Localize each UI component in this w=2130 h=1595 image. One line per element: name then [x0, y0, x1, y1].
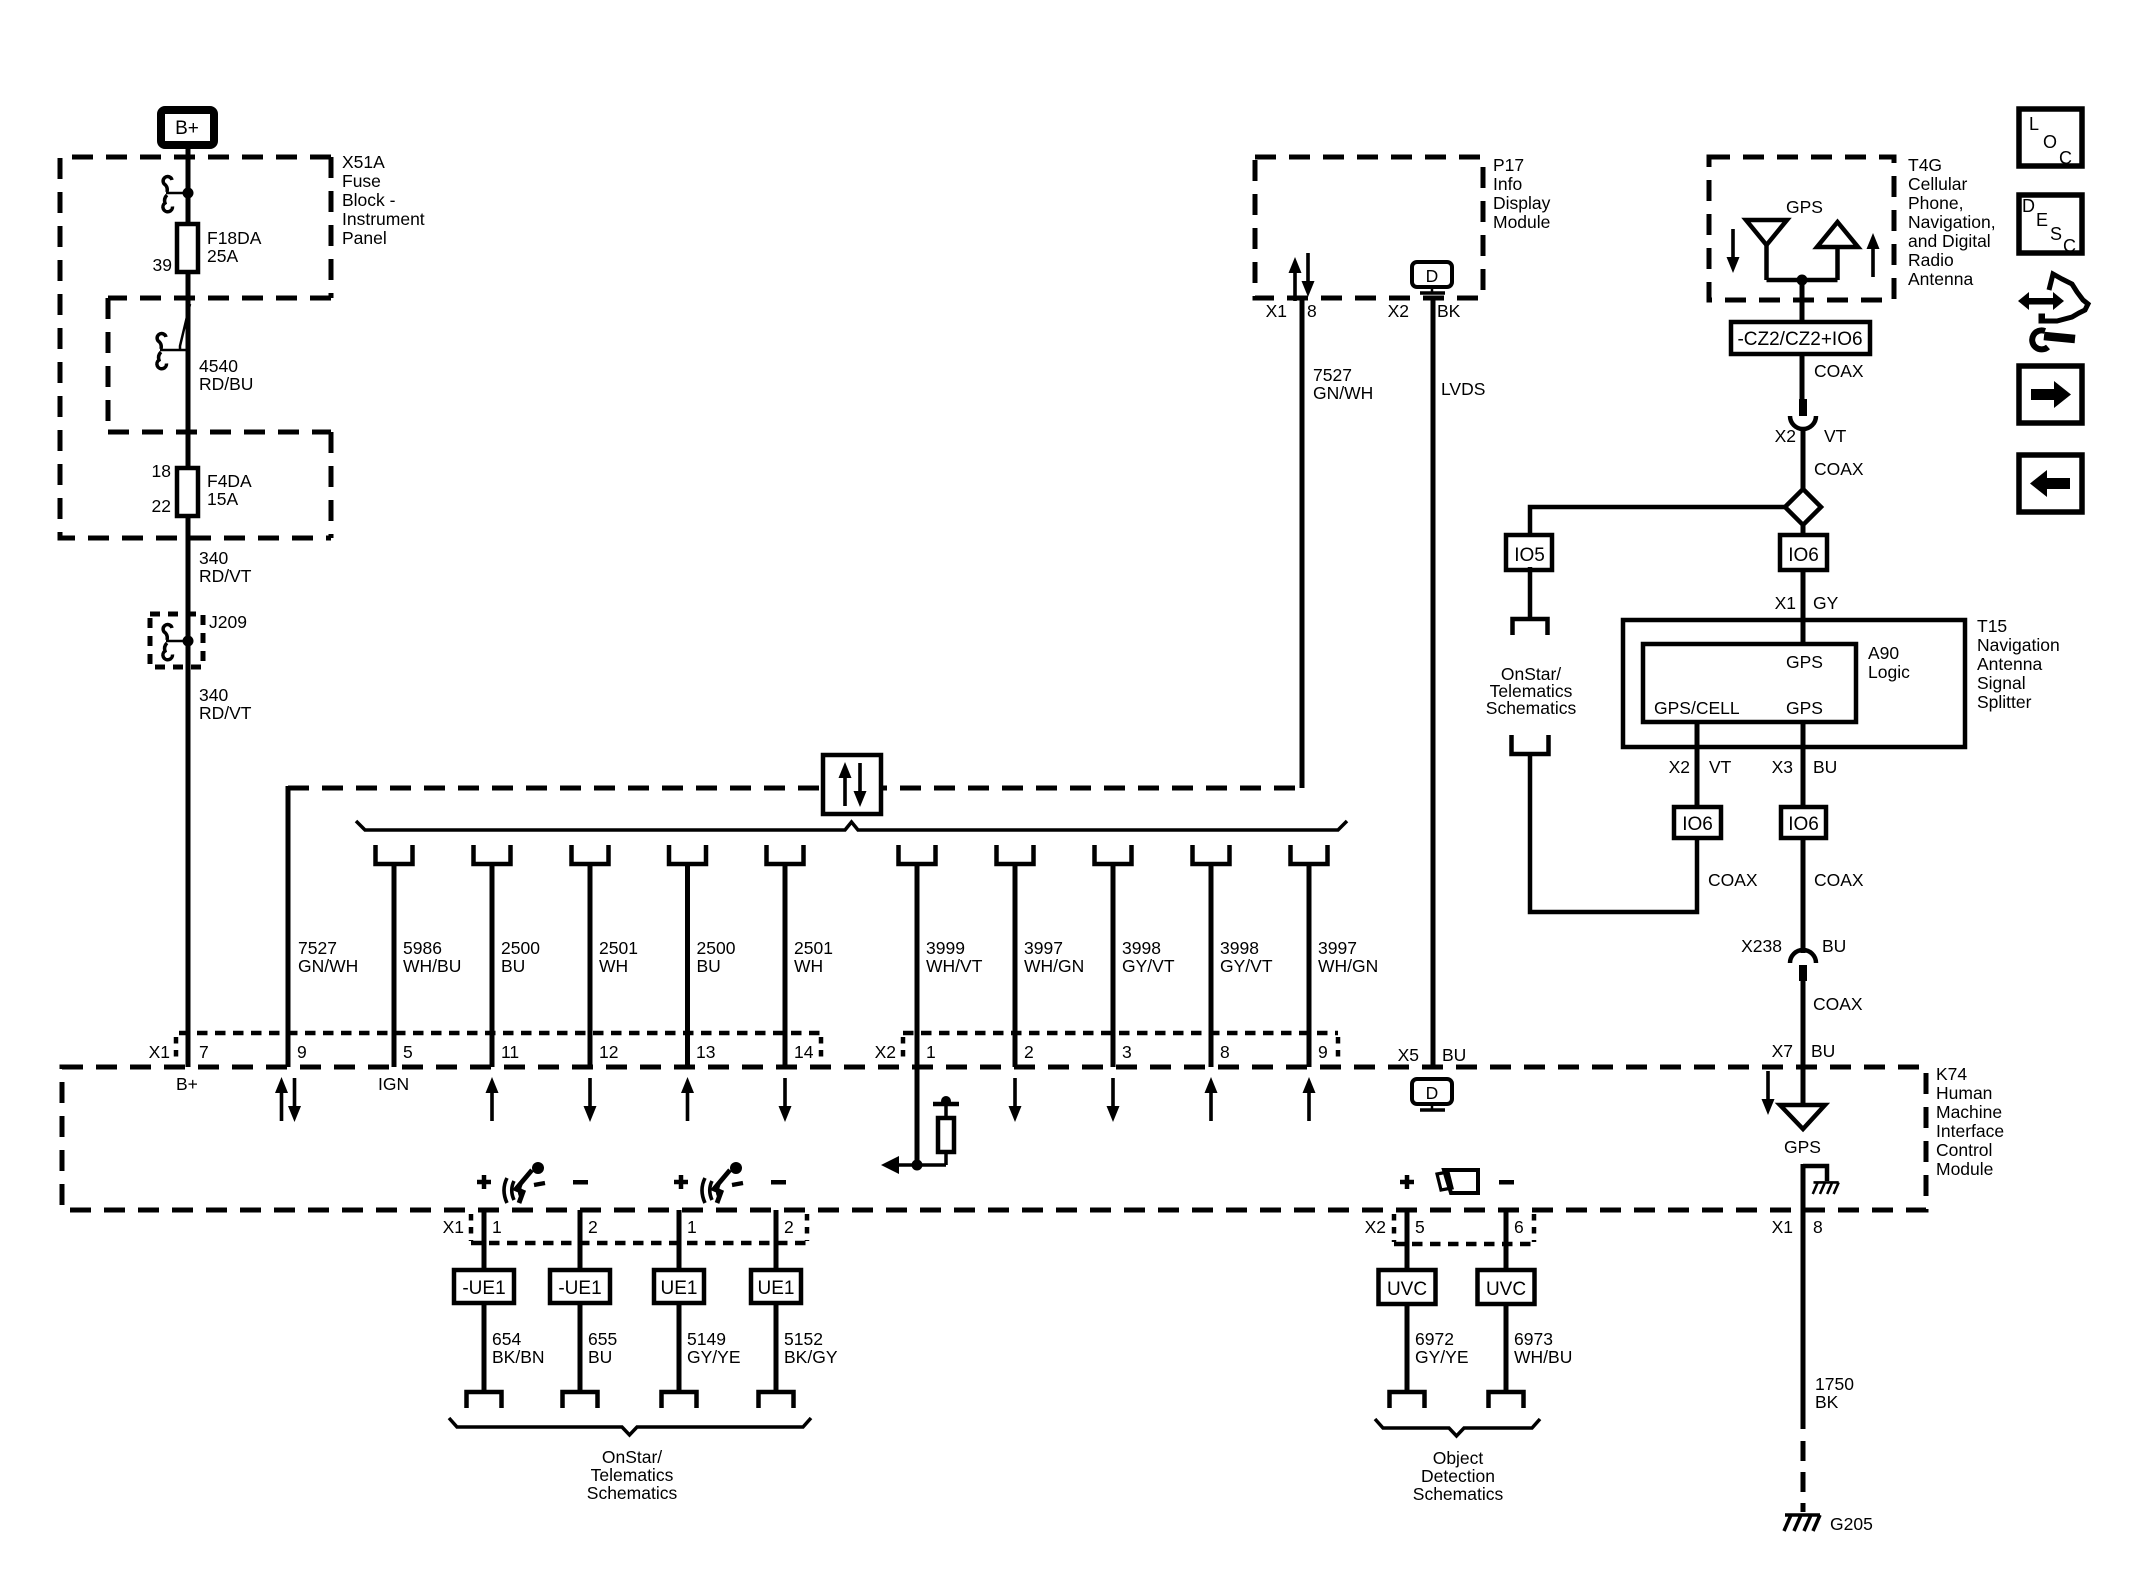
fuse block label X51A [342, 152, 425, 248]
svg-text:9: 9 [1318, 1042, 1328, 1062]
splice J209 [150, 612, 247, 667]
svg-text:WH/GN: WH/GN [1318, 956, 1378, 976]
svg-text:WH: WH [794, 956, 823, 976]
svg-text:Radio: Radio [1908, 250, 1954, 270]
svg-text:2: 2 [1024, 1042, 1034, 1062]
T4G antenna element 2 [1817, 222, 1858, 280]
wire 7527 GN/WH from P17 X1-8 [1300, 298, 1305, 788]
svg-text:X2: X2 [1365, 1217, 1386, 1237]
node IO6 right [1781, 807, 1826, 838]
svg-text:Detection: Detection [1421, 1466, 1495, 1486]
svg-text:5149: 5149 [687, 1329, 726, 1349]
wire 340 RD/VT label [199, 548, 252, 586]
wire 1750 BK [1803, 1235, 1854, 1512]
svg-text:Machine: Machine [1936, 1102, 2002, 1122]
wire 3997 WH/GN to pin 9 [1291, 845, 1379, 1067]
svg-text:K74: K74 [1936, 1064, 1967, 1084]
svg-text:Fuse: Fuse [342, 171, 381, 191]
svg-text:655: 655 [588, 1329, 617, 1349]
svg-text:X2: X2 [1388, 301, 1409, 321]
svg-text:T15: T15 [1977, 616, 2007, 636]
svg-text:5152: 5152 [784, 1329, 823, 1349]
module P17 Info Display dashed box [1255, 157, 1483, 298]
svg-text:IO6: IO6 [1788, 814, 1819, 835]
svg-text:12: 12 [599, 1042, 618, 1062]
antenna T4G dashed box [1709, 157, 1894, 300]
svg-text:IO5: IO5 [1514, 545, 1545, 566]
wire off-page loop to IO6 [1530, 754, 1697, 912]
signal direction arrow pin X2-2 [1009, 1078, 1022, 1122]
svg-text:6972: 6972 [1415, 1329, 1454, 1349]
svg-text:Block -: Block - [342, 190, 396, 210]
svg-text:IO6: IO6 [1788, 545, 1819, 566]
svg-text:5: 5 [1415, 1217, 1425, 1237]
svg-text:1: 1 [492, 1217, 502, 1237]
wire bus left drop 7527 GN/WH [286, 786, 291, 1067]
wire COAX to K74 X7 [1803, 981, 1863, 1067]
svg-text:2500: 2500 [697, 938, 736, 958]
wire 5152 BK/GY mic pin 2 [751, 1210, 838, 1408]
module P17 label [1493, 155, 1551, 232]
svg-text:T4G: T4G [1908, 155, 1942, 175]
svg-text:L: L [2029, 114, 2039, 134]
svg-text:BU: BU [1813, 757, 1837, 777]
svg-text:BU: BU [1442, 1045, 1466, 1065]
svg-text:X7: X7 [1772, 1041, 1793, 1061]
svg-text:BK/BN: BK/BN [492, 1347, 545, 1367]
wire 3999 WH/VT to pin 1 [899, 845, 983, 1067]
module K74 HMI control dashed box [62, 1067, 1926, 1210]
signal direction arrow pin X1-14 [779, 1078, 792, 1122]
svg-text:UVC: UVC [1387, 1279, 1427, 1300]
node IO5 [1506, 535, 1552, 570]
splice diamond node [1785, 489, 1821, 525]
camera symbol [1400, 1170, 1514, 1193]
module K74 label [1936, 1064, 2004, 1179]
svg-text:X1: X1 [443, 1217, 464, 1237]
svg-text:D: D [1426, 1083, 1439, 1103]
fuse block X51A dashed outline [60, 157, 331, 538]
svg-text:WH: WH [599, 956, 628, 976]
svg-text:Schematics: Schematics [1413, 1484, 1504, 1504]
svg-text:5986: 5986 [403, 938, 442, 958]
svg-text:3: 3 [1122, 1042, 1132, 1062]
internal terminal 4540 jog [157, 304, 190, 369]
svg-text:VT: VT [1709, 757, 1732, 777]
svg-text:RD/BU: RD/BU [199, 374, 253, 394]
svg-text:X51A: X51A [342, 152, 385, 172]
svg-text:COAX: COAX [1814, 459, 1864, 479]
svg-text:X5: X5 [1398, 1045, 1419, 1065]
wire 5986 WH/BU to pin 5 [376, 845, 462, 1067]
svg-text:3997: 3997 [1318, 938, 1357, 958]
bidirectional data symbol box [823, 755, 881, 814]
logic block A90 [1643, 644, 1856, 722]
svg-text:COAX: COAX [1708, 870, 1758, 890]
svg-text:654: 654 [492, 1329, 521, 1349]
wire 4540 RD/BU label [199, 356, 253, 394]
svg-text:P17: P17 [1493, 155, 1524, 175]
svg-text:G205: G205 [1830, 1514, 1873, 1534]
signal direction arrow pin X2-3 [1107, 1078, 1120, 1122]
svg-text:IGN: IGN [378, 1074, 409, 1094]
svg-text:S: S [2050, 224, 2062, 244]
off-page connector half 2 [1512, 735, 1549, 754]
internal terminal at B+ feed [163, 177, 194, 212]
microphone 2 symbol [674, 1162, 786, 1203]
svg-text:Module: Module [1936, 1159, 1993, 1179]
wire to X238 [1801, 838, 1806, 953]
svg-text:LVDS: LVDS [1441, 379, 1485, 399]
svg-text:Interface: Interface [1936, 1121, 2004, 1141]
svg-text:GY/YE: GY/YE [687, 1347, 741, 1367]
svg-text:VT: VT [1824, 426, 1847, 446]
svg-text:4540: 4540 [199, 356, 238, 376]
svg-text:1: 1 [687, 1217, 697, 1237]
battery terminal B+ [161, 110, 214, 145]
svg-text:GPS: GPS [1786, 698, 1823, 718]
signal direction arrow pin X2-8 [1205, 1077, 1218, 1121]
svg-text:-UE1: -UE1 [462, 1278, 505, 1299]
off-page connector half [1513, 619, 1548, 635]
svg-text:9: 9 [297, 1042, 307, 1062]
inline connector X238 BU [1741, 936, 1846, 981]
svg-text:C: C [2059, 148, 2072, 168]
T4G antenna element 1 [1746, 220, 1787, 280]
signal direction arrow pin X1-11 [486, 1077, 499, 1121]
svg-text:O: O [2043, 132, 2057, 152]
pin X5 BU label [1398, 1045, 1467, 1065]
OnStar reference label [587, 1447, 678, 1503]
svg-text:A90: A90 [1868, 643, 1899, 663]
wire 2501 WH to pin 12 [572, 845, 638, 1067]
svg-text:B+: B+ [175, 118, 199, 139]
node -CZ2/CZ2+IO6 [1731, 322, 1870, 354]
svg-text:2: 2 [588, 1217, 598, 1237]
svg-text:GY: GY [1813, 593, 1839, 613]
svg-text:22: 22 [152, 496, 171, 516]
svg-text:18: 18 [152, 461, 171, 481]
Object Detection reference label [1413, 1448, 1504, 1504]
svg-text:D: D [2022, 196, 2035, 216]
svg-text:RD/VT: RD/VT [199, 703, 252, 723]
icon arrow back [2019, 455, 2082, 512]
P17 pin labels X1 8 / X2 BK [1266, 301, 1461, 321]
icon arrow next [2019, 366, 2082, 423]
svg-text:1750: 1750 [1815, 1374, 1854, 1394]
svg-text:39: 39 [153, 255, 172, 275]
svg-text:BU: BU [588, 1347, 612, 1367]
svg-text:1: 1 [926, 1042, 936, 1062]
logic block A90 label [1868, 643, 1910, 682]
splitter T15 label [1977, 616, 2060, 712]
wire X2 VT from A90 [1669, 722, 1732, 807]
svg-text:X1: X1 [1772, 1217, 1793, 1237]
svg-text:7527: 7527 [1313, 365, 1352, 385]
ground G205 [1784, 1514, 1873, 1534]
svg-text:X2: X2 [875, 1042, 896, 1062]
svg-text:COAX: COAX [1814, 361, 1864, 381]
K74 termination resistor on pin X2-1 [881, 1067, 959, 1174]
svg-text:Cellular: Cellular [1908, 174, 1967, 194]
pin X1 8 label bottom right [1772, 1217, 1823, 1237]
svg-text:Panel: Panel [342, 228, 387, 248]
svg-text:340: 340 [199, 685, 228, 705]
svg-text:GY/VT: GY/VT [1122, 956, 1175, 976]
harness brace [356, 821, 1347, 830]
svg-text:BU: BU [1811, 1041, 1835, 1061]
node IO6 top [1780, 525, 1827, 570]
svg-text:Schematics: Schematics [587, 1483, 678, 1503]
svg-text:Splitter: Splitter [1977, 692, 2032, 712]
svg-text:WH/BU: WH/BU [1514, 1347, 1572, 1367]
svg-text:Antenna: Antenna [1977, 654, 2042, 674]
icon DESC [2019, 195, 2082, 256]
T4G antenna junction [1767, 275, 1838, 323]
svg-text:UE1: UE1 [661, 1278, 698, 1299]
svg-text:Telematics: Telematics [591, 1465, 674, 1485]
svg-text:340: 340 [199, 548, 228, 568]
node IO6 left [1674, 807, 1721, 838]
svg-text:Navigation,: Navigation, [1908, 212, 1996, 232]
svg-text:8: 8 [1813, 1217, 1823, 1237]
wire 3997 WH/GN to pin 2 [997, 845, 1085, 1067]
svg-text:X1: X1 [1266, 301, 1287, 321]
svg-text:3998: 3998 [1220, 938, 1259, 958]
svg-text:GN/WH: GN/WH [1313, 383, 1373, 403]
svg-text:Control: Control [1936, 1140, 1992, 1160]
wire 655 BU mic pin 2 [550, 1210, 617, 1408]
icon LOC [2019, 109, 2082, 168]
svg-text:14: 14 [794, 1042, 814, 1062]
svg-text:X3: X3 [1772, 757, 1793, 777]
fuse F4DA 15A [152, 461, 253, 516]
svg-text:6973: 6973 [1514, 1329, 1553, 1349]
svg-text:2501: 2501 [794, 938, 833, 958]
pin X7 BU label [1772, 1041, 1836, 1061]
svg-text:X1: X1 [1775, 593, 1796, 613]
svg-text:GPS/CELL: GPS/CELL [1654, 698, 1740, 718]
svg-text:8: 8 [1220, 1042, 1230, 1062]
svg-text:WH/VT: WH/VT [926, 956, 983, 976]
svg-text:GPS: GPS [1786, 652, 1823, 672]
K74 display icon D at X5 [1412, 1079, 1452, 1110]
svg-text:WH/BU: WH/BU [403, 956, 461, 976]
icon vehicle diagnostics [2018, 274, 2088, 349]
microphone 1 symbol [477, 1162, 588, 1203]
wire 3998 GY/VT to pin 3 [1095, 845, 1175, 1067]
svg-text:GPS: GPS [1786, 197, 1823, 217]
svg-text:Info: Info [1493, 174, 1522, 194]
K74 internal ground [1803, 1164, 1839, 1235]
wire COAX [1802, 354, 1864, 399]
svg-text:RD/VT: RD/VT [199, 566, 252, 586]
wire 6973 WH/BU camera pin 6 [1478, 1210, 1573, 1408]
svg-text:-UE1: -UE1 [558, 1278, 601, 1299]
antenna T4G label [1908, 155, 1996, 289]
svg-text:7: 7 [199, 1042, 209, 1062]
svg-text:X2: X2 [1669, 757, 1690, 777]
wire 2501 WH to pin 14 [767, 845, 833, 1067]
svg-text:E: E [2036, 210, 2048, 230]
svg-text:Antenna: Antenna [1908, 269, 1973, 289]
svg-text:J209: J209 [209, 612, 247, 632]
T4G receive arrow [1727, 229, 1740, 273]
P17 serial data arrows [1289, 253, 1315, 301]
connector X1 strip bottom [443, 1214, 807, 1243]
signal direction arrow pin X2-9 [1303, 1077, 1316, 1121]
svg-text:OnStar/: OnStar/ [602, 1447, 662, 1467]
COAX labels [1708, 870, 1864, 890]
wire X1 GY [1775, 570, 1839, 644]
splitter T15 box [1623, 620, 1965, 747]
svg-text:Human: Human [1936, 1083, 1992, 1103]
svg-text:and Digital: and Digital [1908, 231, 1991, 251]
svg-text:BU: BU [697, 956, 721, 976]
svg-text:3999: 3999 [926, 938, 965, 958]
K74 GPS input arrow [1762, 1071, 1775, 1115]
svg-text:11: 11 [501, 1042, 519, 1062]
svg-text:BU: BU [501, 956, 525, 976]
svg-text:3997: 3997 [1024, 938, 1063, 958]
svg-text:GY/VT: GY/VT [1220, 956, 1273, 976]
svg-text:COAX: COAX [1813, 994, 1863, 1014]
svg-text:8: 8 [1307, 301, 1317, 321]
svg-text:B+: B+ [176, 1074, 198, 1094]
connector X1 strip on K74 [149, 1033, 821, 1063]
svg-text:X238: X238 [1741, 936, 1782, 956]
svg-text:GN/WH: GN/WH [298, 956, 358, 976]
svg-text:C: C [2063, 236, 2076, 256]
svg-text:2500: 2500 [501, 938, 540, 958]
svg-text:X2: X2 [1775, 426, 1796, 446]
svg-text:Phone,: Phone, [1908, 193, 1963, 213]
wire 654 BK/BN mic pin 1 [454, 1210, 545, 1408]
K74 GPS antenna symbol [1780, 1067, 1825, 1157]
wire 340 RD/VT label 2 [199, 685, 252, 723]
wire 6972 GY/YE camera pin 5 [1379, 1210, 1469, 1408]
wire LVDS from P17 X2 [1431, 298, 1436, 1067]
signal direction arrow pin X1-12 [584, 1078, 597, 1122]
P17 display icon D [1412, 262, 1452, 293]
fuse F18DA 25A [153, 224, 262, 275]
svg-text:BK: BK [1815, 1392, 1839, 1412]
T4G transmit arrow [1867, 233, 1880, 277]
svg-text:F4DA: F4DA [207, 471, 252, 491]
svg-text:Schematics: Schematics [1486, 698, 1577, 718]
svg-text:WH/GN: WH/GN [1024, 956, 1084, 976]
connector X2 strip on K74 [875, 1033, 1338, 1063]
inline connector X2 VT [1775, 399, 1847, 446]
wire B+ feed [186, 148, 191, 1067]
svg-text:GY/YE: GY/YE [1415, 1347, 1469, 1367]
svg-text:7527: 7527 [298, 938, 337, 958]
wire COAX 2 [1803, 430, 1864, 489]
svg-text:13: 13 [696, 1042, 715, 1062]
svg-text:IO6: IO6 [1682, 814, 1713, 835]
svg-text:3998: 3998 [1122, 938, 1161, 958]
svg-text:BK/GY: BK/GY [784, 1347, 838, 1367]
svg-text:15A: 15A [207, 489, 238, 509]
svg-text:25A: 25A [207, 246, 238, 266]
connector X2 strip bottom [1365, 1214, 1534, 1244]
svg-text:Navigation: Navigation [1977, 635, 2060, 655]
svg-text:F18DA: F18DA [207, 228, 262, 248]
wire 5149 GY/YE mic pin 1 [654, 1210, 741, 1408]
OnStar Telematics reference [1486, 664, 1577, 718]
svg-text:GPS: GPS [1784, 1137, 1821, 1157]
wire 2500 BU to pin 11 [474, 845, 541, 1067]
wire to IO5 [1530, 507, 1785, 536]
svg-text:COAX: COAX [1814, 870, 1864, 890]
wire 3998 GY/VT to pin 8 [1193, 845, 1273, 1067]
svg-text:5: 5 [403, 1042, 413, 1062]
OnStar brace [449, 1418, 811, 1435]
svg-text:Instrument: Instrument [342, 209, 425, 229]
svg-text:6: 6 [1514, 1217, 1524, 1237]
svg-text:D: D [1426, 266, 1439, 286]
wire 2500 BU to pin 13 [669, 845, 736, 1067]
svg-text:Display: Display [1493, 193, 1551, 213]
svg-text:Signal: Signal [1977, 673, 2026, 693]
svg-text:Logic: Logic [1868, 662, 1910, 682]
svg-text:UE1: UE1 [758, 1278, 795, 1299]
K74 serial data arrows pin 9 [275, 1077, 301, 1122]
wire X3 BU from A90 [1772, 722, 1838, 807]
svg-text:Object: Object [1433, 1448, 1484, 1468]
svg-text:Module: Module [1493, 212, 1550, 232]
svg-text:BU: BU [1822, 936, 1846, 956]
Object Detection brace [1375, 1419, 1540, 1436]
dashed serial data bus [288, 786, 1302, 791]
svg-text:2: 2 [784, 1217, 794, 1237]
svg-text:-CZ2/CZ2+IO6: -CZ2/CZ2+IO6 [1737, 329, 1862, 350]
wire IO5 to off-page [1528, 567, 1533, 619]
svg-text:2501: 2501 [599, 938, 638, 958]
signal direction arrow pin X1-13 [681, 1077, 694, 1121]
svg-text:BK: BK [1437, 301, 1461, 321]
svg-text:UVC: UVC [1486, 1279, 1526, 1300]
svg-text:X1: X1 [149, 1042, 170, 1062]
